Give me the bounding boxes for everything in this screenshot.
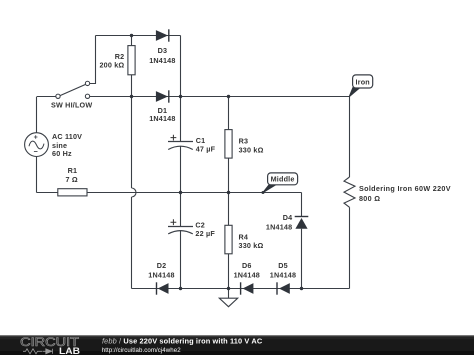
svg-text:febb / Use 220V soldering iron: febb / Use 220V soldering iron with 110 …	[102, 337, 263, 346]
svg-text:1N4148: 1N4148	[148, 271, 174, 280]
wire middle row	[37, 192, 302, 194]
node mid-R4	[227, 191, 230, 194]
svg-text:Middle: Middle	[271, 174, 295, 183]
switch SW HI/LOW	[51, 81, 92, 109]
svg-text:1N4148: 1N4148	[234, 271, 260, 280]
wire iron rail lower	[349, 207, 351, 288]
svg-text:7 Ω: 7 Ω	[66, 175, 78, 184]
ground	[219, 289, 237, 307]
wire C rail: middle to C2	[180, 193, 182, 227]
wire D4 rail	[301, 193, 303, 289]
node Middle	[263, 173, 298, 193]
wire AC rail upper	[37, 97, 56, 133]
wire D2 branch rail upper	[131, 97, 133, 189]
resistor R2	[99, 46, 135, 75]
node mid-Middle	[262, 191, 265, 194]
voltage source V1	[25, 132, 83, 158]
svg-text:330 kΩ: 330 kΩ	[239, 241, 264, 250]
svg-text:D6: D6	[242, 261, 252, 270]
resistor R3	[225, 130, 264, 159]
svg-text:60 Hz: 60 Hz	[52, 149, 72, 158]
footer bar	[0, 335, 474, 355]
node bottom-C2	[179, 287, 182, 290]
svg-text:1N4148: 1N4148	[149, 56, 175, 65]
svg-text:22 µF: 22 µF	[195, 229, 215, 238]
svg-text:D3: D3	[158, 46, 168, 55]
logo CIRCUIT LAB	[20, 336, 80, 355]
diode D2	[148, 261, 174, 295]
wire C rail: bus to C1	[180, 97, 182, 142]
svg-text:800 Ω: 800 Ω	[359, 194, 380, 203]
svg-text:LAB: LAB	[59, 346, 80, 355]
svg-text:1N4148: 1N4148	[266, 222, 292, 231]
wire switch-to-top vertical	[90, 36, 96, 84]
wire AC rail lower	[36, 156, 38, 192]
svg-text:D5: D5	[278, 261, 288, 270]
wire main bus row	[90, 96, 350, 98]
resistor R4	[225, 225, 264, 254]
diode D6	[234, 261, 260, 295]
wire D3 output down to bus	[180, 36, 182, 97]
wire D2 branch rail lower	[131, 197, 133, 289]
node bottom-D4	[300, 287, 303, 290]
wire iron rail upper	[349, 97, 351, 178]
resistor soldering iron	[344, 177, 451, 207]
svg-text:1N4148: 1N4148	[149, 114, 175, 123]
svg-text:330 kΩ: 330 kΩ	[239, 145, 264, 154]
diode D1	[149, 90, 175, 123]
svg-text:Iron: Iron	[356, 77, 370, 86]
capacitor C1	[168, 135, 216, 154]
footer text	[102, 337, 263, 354]
node bus-R3	[227, 95, 230, 98]
wire hop over middle row	[132, 188, 137, 197]
node R2 bottom	[130, 95, 133, 98]
node R2 top	[130, 34, 133, 37]
diode D3	[149, 29, 175, 65]
svg-text:47 µF: 47 µF	[196, 144, 216, 153]
svg-text:D4: D4	[283, 213, 293, 222]
diode D5	[270, 261, 296, 295]
resistor R1	[58, 166, 87, 196]
svg-text:R2: R2	[115, 52, 125, 61]
svg-text:1N4148: 1N4148	[270, 271, 296, 280]
node mid-C2	[179, 191, 182, 194]
svg-text:http://circuitlab.com/cj4whe2: http://circuitlab.com/cj4whe2	[102, 347, 181, 354]
svg-text:R3: R3	[239, 137, 249, 146]
svg-text:R1: R1	[68, 166, 78, 175]
wire R3 rail	[228, 97, 230, 193]
wire top row	[96, 35, 181, 37]
wire C rail: C2 to bottom	[180, 231, 182, 289]
node Iron	[349, 75, 373, 97]
diode D4	[266, 213, 308, 231]
wire bottom row	[132, 288, 350, 290]
wire R4 rail	[228, 193, 230, 289]
node bottom-ground	[227, 287, 230, 290]
svg-text:SW HI/LOW: SW HI/LOW	[51, 101, 92, 110]
capacitor C2	[168, 219, 215, 238]
wire R2 rail	[131, 36, 133, 97]
svg-text:Soldering Iron 60W 220V: Soldering Iron 60W 220V	[359, 184, 451, 193]
svg-text:D2: D2	[157, 261, 167, 270]
node bus-C1	[179, 95, 182, 98]
svg-text:200 kΩ: 200 kΩ	[99, 61, 124, 70]
wire C rail: C1 to middle	[180, 146, 182, 192]
